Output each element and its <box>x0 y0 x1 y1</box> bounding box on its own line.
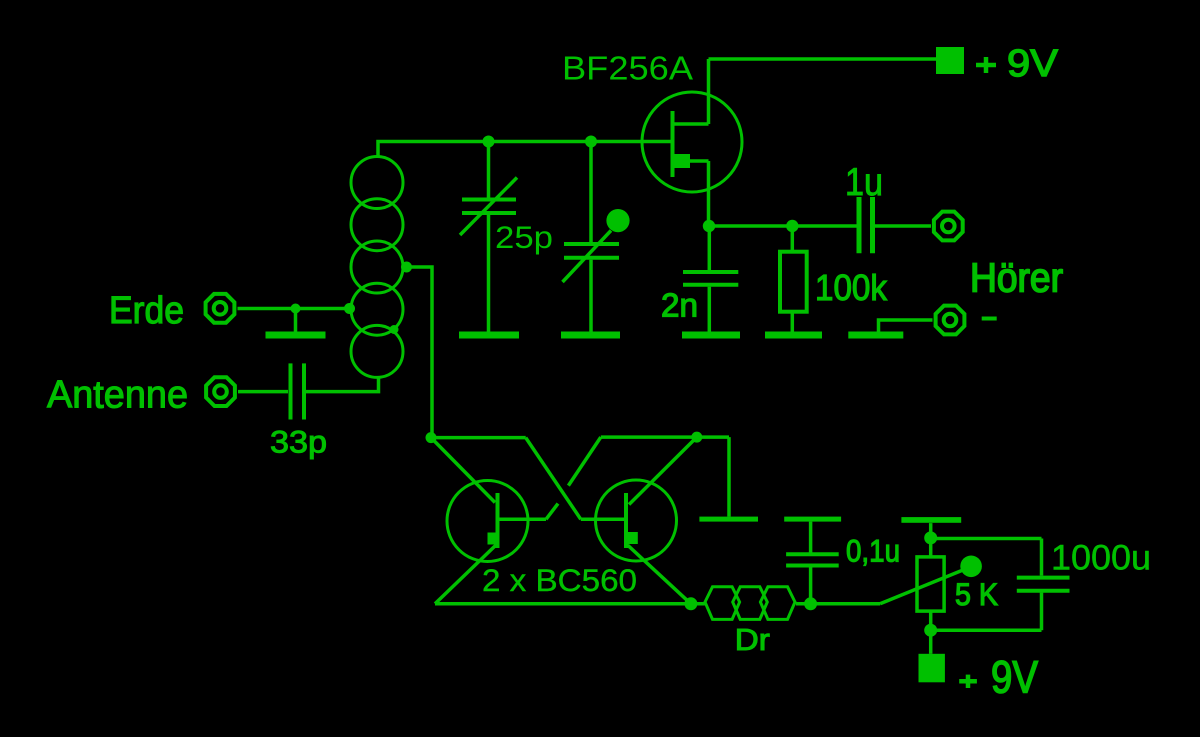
node coil left <box>344 303 355 314</box>
wire to collector ground <box>727 437 731 516</box>
label minus <box>982 317 997 321</box>
ground collectors <box>699 517 758 522</box>
ground 25p <box>459 332 519 339</box>
svg-text:Erde: Erde <box>109 289 184 332</box>
wire drain to +9V <box>709 57 937 61</box>
wire Erde to coil <box>238 307 350 311</box>
label +9V bottom <box>959 679 977 684</box>
wire Hoerer minus to ground <box>879 320 933 332</box>
ground erde <box>266 309 326 339</box>
terminal Antenne <box>206 377 235 406</box>
wire choke to pot <box>796 602 880 606</box>
svg-text:2n: 2n <box>661 288 698 325</box>
choke Dr <box>705 587 795 620</box>
wire osc top right <box>601 435 729 439</box>
node Erde junction <box>291 304 301 314</box>
svg-text:Dr: Dr <box>735 623 770 657</box>
node 0.1u bottom <box>804 597 817 610</box>
wire diag cross A <box>526 438 581 520</box>
terminal Erde <box>206 294 235 323</box>
wire osc top left <box>431 436 526 440</box>
wire coil tap to oscillator <box>405 267 432 438</box>
wire top rail gate <box>378 142 673 157</box>
ground 100k <box>765 332 822 339</box>
svg-text:2 x BC560: 2 x BC560 <box>482 562 637 598</box>
supply square +9V bottom <box>919 654 945 683</box>
node source <box>703 220 715 232</box>
svg-text:9V: 9V <box>991 651 1038 702</box>
label +9V top <box>976 63 996 68</box>
node pot top <box>924 531 937 544</box>
terminal Hoerer minus <box>936 306 965 335</box>
transistor Q2 BC560 <box>596 437 697 604</box>
node J1 <box>483 136 495 148</box>
wire source rail <box>709 224 857 228</box>
wire base lead Q1 <box>498 518 547 522</box>
svg-text:25p: 25p <box>495 219 553 255</box>
node osc top right <box>691 432 702 443</box>
supply square +9V top <box>936 47 964 74</box>
svg-text:1u: 1u <box>845 161 883 204</box>
svg-text:BF256A: BF256A <box>562 50 693 87</box>
transistor Q1 BC560 <box>431 438 528 604</box>
capacitor C4 2n <box>683 226 738 332</box>
svg-text:5 K: 5 K <box>955 576 998 612</box>
capacitor C5 1u <box>859 197 931 253</box>
capacitor C3 33p <box>238 363 379 419</box>
ground hoerer <box>848 332 903 339</box>
svg-text:100k: 100k <box>815 267 888 308</box>
node J2 <box>585 136 597 148</box>
ground 2n <box>682 332 740 339</box>
JFET U1 BF256A <box>642 59 742 226</box>
wire diag cross B upper <box>568 437 600 486</box>
svg-text:0,1u: 0,1u <box>846 533 900 569</box>
node pot bottom <box>924 624 937 637</box>
node 100k top <box>786 220 798 232</box>
ground tuning cap <box>561 332 620 339</box>
svg-text:33p: 33p <box>270 425 327 460</box>
svg-text:1000u: 1000u <box>1051 539 1151 578</box>
trimmer capacitor C1 25p <box>460 142 517 332</box>
wire base lead Q2 <box>581 518 626 522</box>
tuning capacitor C2 <box>563 142 630 332</box>
wire emitter rail <box>435 602 706 606</box>
capacitor C6 0.1u <box>784 517 841 604</box>
resistor R1 100k <box>780 226 807 332</box>
coil L1 <box>351 157 403 378</box>
node coil tap lens <box>390 325 399 334</box>
svg-text:Hörer: Hörer <box>970 255 1063 301</box>
node emitter rail <box>684 597 697 610</box>
potentiometer R2 5K <box>880 523 982 654</box>
wire diag cross B lower <box>546 504 558 520</box>
node tap <box>401 262 412 273</box>
capacitor C7 1000u <box>931 539 1070 631</box>
terminal Hoerer plus <box>934 212 963 241</box>
svg-text:9V: 9V <box>1007 42 1058 84</box>
node osc top left <box>426 432 437 443</box>
ground pot top <box>901 517 961 523</box>
svg-text:Antenne: Antenne <box>47 374 188 417</box>
